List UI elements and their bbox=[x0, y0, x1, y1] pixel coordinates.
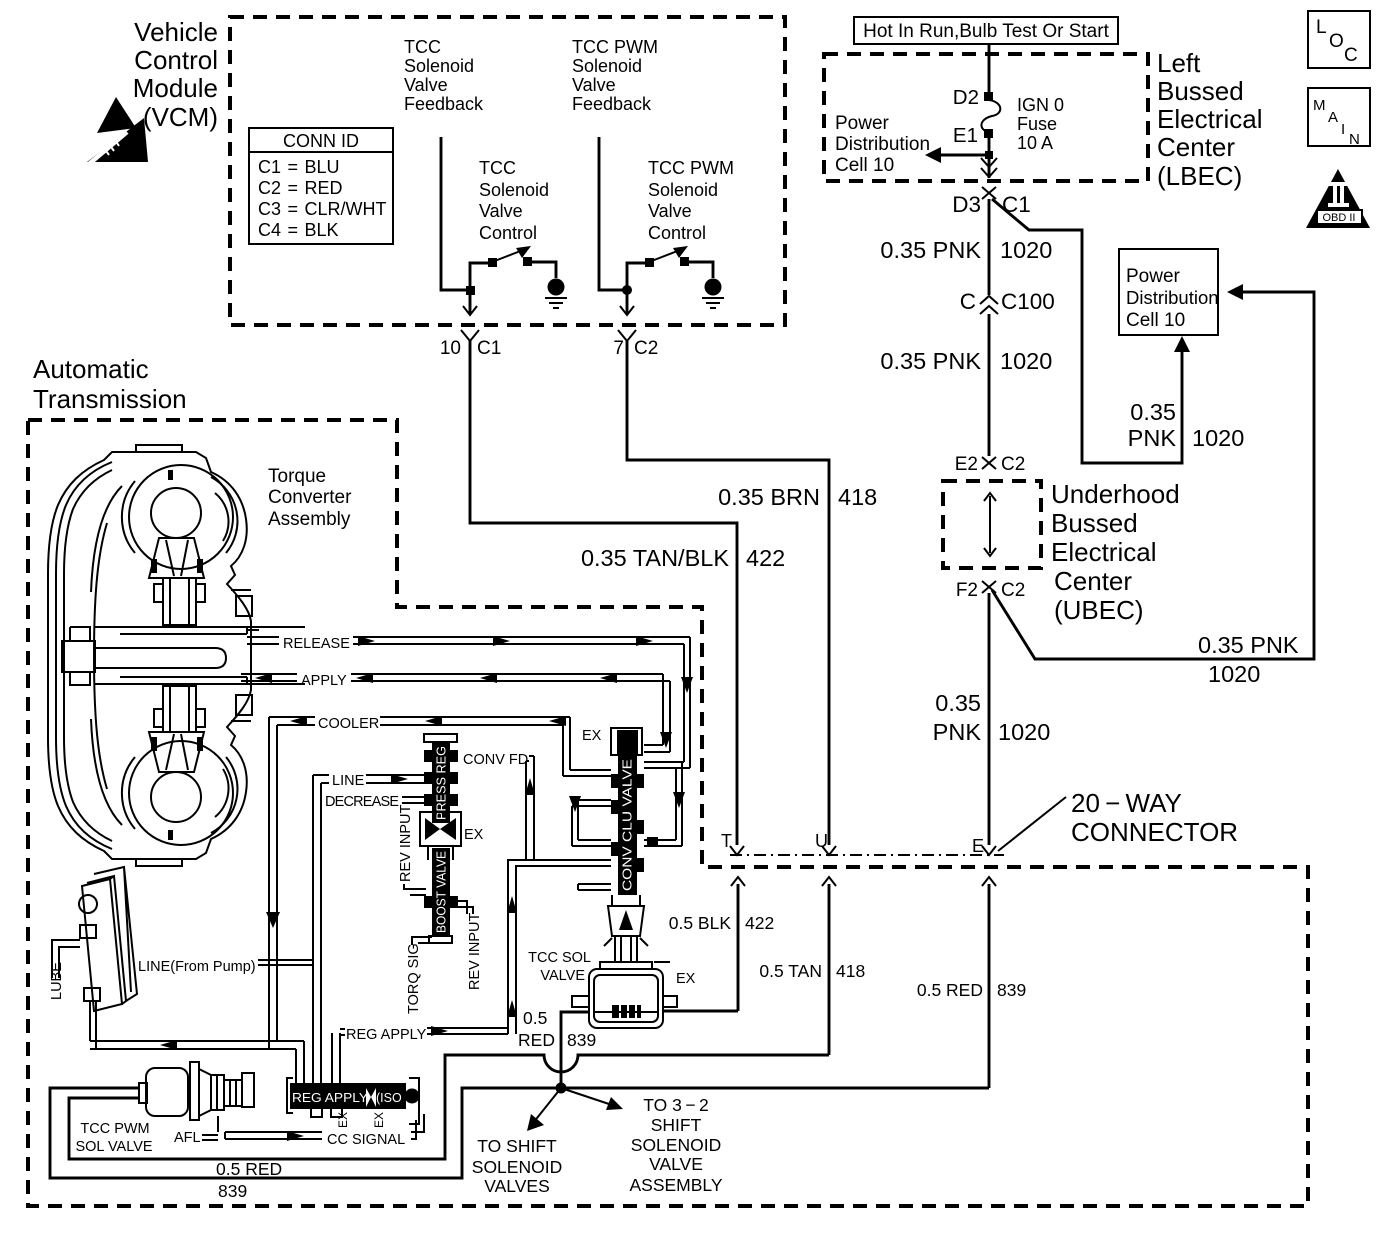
wire RED 839 TCC sol valve drop bbox=[561, 1012, 589, 1088]
svg-text:0.5: 0.5 bbox=[523, 1008, 547, 1028]
svg-text:Assembly: Assembly bbox=[268, 509, 351, 530]
pipe LUBE to cooler bbox=[52, 940, 80, 978]
svg-text:7: 7 bbox=[613, 338, 624, 359]
svg-text:EX: EX bbox=[464, 827, 484, 843]
svg-text:Solenoid: Solenoid bbox=[572, 56, 642, 76]
wire hot feed into fuse bbox=[988, 44, 991, 94]
svg-text:20 − WAY: 20 − WAY bbox=[1071, 788, 1182, 818]
svg-text:1020: 1020 bbox=[1000, 237, 1052, 263]
pipe LINE bbox=[313, 771, 426, 1085]
svg-text:0.5 RED: 0.5 RED bbox=[917, 980, 983, 1000]
svg-text:Electrical: Electrical bbox=[1051, 537, 1156, 567]
pipe conv clu right lower bbox=[569, 677, 693, 846]
wire TAN 418 U to TCC PWM sol valve with hop bbox=[69, 1055, 829, 1159]
svg-text:0.5 TAN: 0.5 TAN bbox=[759, 961, 822, 981]
wire TCC feedback bbox=[441, 137, 466, 290]
wire D3 branch to power distribution cell bbox=[992, 199, 1182, 463]
ESD sensitivity symbol bbox=[87, 97, 148, 164]
svg-text:SOL VALVE: SOL VALVE bbox=[75, 1139, 152, 1155]
wire PNK 1020 C100 to E2 bbox=[988, 314, 991, 456]
solenoid TCC PWM SOL VALVE bbox=[139, 1062, 254, 1120]
svg-text:418: 418 bbox=[836, 961, 865, 981]
svg-text:L: L bbox=[1316, 17, 1327, 38]
svg-text:F2: F2 bbox=[956, 580, 978, 601]
pipe REG APPLY label bbox=[346, 1026, 508, 1043]
svg-text:VALVE: VALVE bbox=[540, 968, 585, 984]
svg-text:M: M bbox=[1313, 97, 1326, 114]
torus outer left arcs bbox=[122, 481, 135, 829]
svg-text:C2: C2 bbox=[1001, 454, 1025, 475]
label TCC PWM Solenoid Valve Control bbox=[648, 158, 734, 243]
svg-text:C4 = BLK: C4 = BLK bbox=[258, 220, 339, 240]
svg-text:1020: 1020 bbox=[1192, 425, 1244, 451]
20-way connector dash-dot line bbox=[730, 854, 1004, 856]
svg-text:C1 = BLU: C1 = BLU bbox=[258, 157, 340, 177]
svg-text:0.35: 0.35 bbox=[935, 690, 981, 716]
wire RED 839 E to junction bbox=[561, 1087, 989, 1090]
label 0.5 RED 839 (bottom) bbox=[216, 1159, 282, 1201]
svg-text:C2: C2 bbox=[634, 338, 658, 359]
svg-text:Feedback: Feedback bbox=[404, 94, 484, 114]
svg-text:Solenoid: Solenoid bbox=[404, 56, 474, 76]
svg-text:E1: E1 bbox=[953, 124, 978, 147]
icon OBD II bbox=[1306, 169, 1370, 228]
svg-text:TO 3 − 2: TO 3 − 2 bbox=[643, 1095, 709, 1115]
module VCM label bbox=[133, 17, 218, 132]
svg-text:0.5 RED: 0.5 RED bbox=[216, 1159, 282, 1179]
svg-text:1020: 1020 bbox=[1000, 348, 1052, 374]
wire RED 839 junction to TCC PWM sol valve bbox=[50, 1088, 561, 1178]
valve CONV CLU VALVE bbox=[582, 728, 648, 962]
svg-text:CONV CLU VALVE: CONV CLU VALVE bbox=[620, 759, 635, 891]
svg-text:(VCM): (VCM) bbox=[143, 102, 218, 132]
svg-text:TCC PWM: TCC PWM bbox=[80, 1121, 149, 1137]
connector C100 bbox=[960, 289, 1055, 314]
svg-text:TCC: TCC bbox=[479, 158, 516, 178]
radiator transmission cooler bbox=[79, 867, 137, 1011]
ground at TCC driver bbox=[545, 279, 567, 309]
switch TCC PWM solenoid valve control driver bbox=[622, 246, 713, 295]
upper torus ring bbox=[129, 465, 237, 569]
svg-text:Power: Power bbox=[835, 113, 890, 134]
wire PNK 1020 LBEC to C100 bbox=[988, 199, 991, 295]
svg-text:SOLENOID: SOLENOID bbox=[472, 1157, 562, 1177]
svg-text:839: 839 bbox=[567, 1030, 596, 1050]
svg-text:Control: Control bbox=[134, 45, 218, 75]
svg-text:APPLY: APPLY bbox=[301, 673, 347, 689]
svg-text:0.35 PNK: 0.35 PNK bbox=[1198, 632, 1299, 658]
svg-text:Left: Left bbox=[1157, 48, 1201, 78]
pipe cooler return bbox=[90, 1001, 304, 1050]
svg-text:839: 839 bbox=[218, 1181, 247, 1201]
pipe REV INPUT upper bbox=[398, 805, 426, 895]
svg-text:I: I bbox=[1341, 121, 1345, 138]
svg-text:E2: E2 bbox=[955, 454, 978, 475]
svg-text:Bussed: Bussed bbox=[1157, 76, 1244, 106]
automatic transmission dashed boundary bbox=[28, 420, 1308, 1206]
svg-text:0.35 BRN: 0.35 BRN bbox=[718, 484, 820, 510]
pipe APPLY bbox=[241, 673, 670, 752]
pipe TORQ SIG bbox=[406, 937, 432, 1014]
torque converter assembly drawing bbox=[48, 445, 305, 866]
svg-text:DECREASE: DECREASE bbox=[325, 794, 399, 810]
svg-text:Hot In Run,Bulb Test Or Start: Hot In Run,Bulb Test Or Start bbox=[863, 21, 1109, 42]
input shaft bbox=[62, 627, 305, 685]
svg-text:0.35 PNK: 0.35 PNK bbox=[880, 348, 981, 374]
svg-text:Fuse: Fuse bbox=[1017, 114, 1057, 134]
arrow to 3-2 shift solenoid bbox=[561, 1088, 623, 1110]
wire arrows into transmission at T U E bbox=[731, 877, 996, 1088]
svg-text:REV INPUT: REV INPUT bbox=[467, 913, 483, 990]
stator spline blocks bbox=[231, 590, 252, 721]
svg-text:Feedback: Feedback bbox=[572, 94, 652, 114]
svg-text:Vehicle: Vehicle bbox=[134, 17, 218, 47]
label 0.5 TAN 418 bbox=[759, 961, 865, 981]
svg-text:SOLENOID: SOLENOID bbox=[631, 1135, 721, 1155]
svg-text:Automatic: Automatic bbox=[33, 354, 149, 384]
label TCC Solenoid Valve Control bbox=[479, 158, 549, 243]
label 0.5 RED 839 (E drop) bbox=[917, 980, 1026, 1000]
svg-text:CONV FD: CONV FD bbox=[463, 752, 528, 768]
label TCC PWM SOL VALVE bbox=[75, 1121, 152, 1155]
valve REG APPLY ISO bbox=[287, 1029, 420, 1124]
label TCC Solenoid Valve Feedback bbox=[404, 37, 484, 114]
svg-text:Cell 10: Cell 10 bbox=[1126, 310, 1185, 331]
svg-text:Distribution: Distribution bbox=[1126, 287, 1219, 308]
svg-text:C2: C2 bbox=[1001, 580, 1025, 601]
svg-text:C100: C100 bbox=[1001, 289, 1055, 314]
svg-text:OBD II: OBD II bbox=[1322, 212, 1355, 224]
svg-text:TCC: TCC bbox=[404, 37, 441, 57]
pipe RELEASE bbox=[247, 636, 690, 768]
LBEC dashed box bbox=[824, 54, 1148, 181]
wire PNK 1020 F2 to 20way E bbox=[988, 593, 991, 845]
svg-text:1020: 1020 bbox=[1208, 661, 1260, 687]
upper turbine hub bbox=[149, 538, 205, 625]
svg-text:0.35 PNK: 0.35 PNK bbox=[880, 237, 981, 263]
arrow into PDC box bottom bbox=[1174, 336, 1190, 352]
svg-text:C: C bbox=[1344, 45, 1358, 66]
lower torus ring bbox=[129, 741, 237, 845]
svg-text:422: 422 bbox=[746, 545, 785, 571]
svg-text:Distribution: Distribution bbox=[835, 134, 930, 155]
svg-text:Valve: Valve bbox=[648, 201, 692, 221]
UBEC dashed box bbox=[943, 481, 1041, 568]
connector pin 7 C2 bbox=[613, 330, 658, 359]
svg-text:839: 839 bbox=[997, 980, 1026, 1000]
label Hot In Run box bbox=[854, 17, 1118, 44]
Power Distribution Cell 10 box bbox=[1119, 249, 1219, 335]
svg-text:C3 = CLR/WHT: C3 = CLR/WHT bbox=[258, 199, 387, 219]
label Automatic Transmission bbox=[33, 354, 187, 414]
wire fuse output with branch arrow bbox=[925, 138, 993, 163]
junction splice 839 bbox=[556, 1083, 567, 1094]
svg-text:REV INPUT: REV INPUT bbox=[398, 805, 414, 882]
switch TCC solenoid valve control driver bbox=[466, 246, 556, 295]
label TO SHIFT SOLENOID VALVES bbox=[472, 1136, 562, 1196]
svg-text:O: O bbox=[1329, 31, 1344, 52]
svg-text:LINE: LINE bbox=[332, 773, 365, 789]
svg-text:Converter: Converter bbox=[268, 487, 352, 508]
wire C1 pin10 to T bbox=[470, 341, 737, 845]
label 0.35 PNK 1020 (second) bbox=[880, 348, 1052, 374]
svg-text:Solenoid: Solenoid bbox=[648, 180, 718, 200]
label TCC PWM Solenoid Valve Feedback bbox=[572, 37, 658, 114]
label 0.35 TAN/BLK 422 bbox=[581, 545, 785, 571]
svg-text:U: U bbox=[815, 831, 828, 851]
svg-text:TORQ SIG: TORQ SIG bbox=[406, 943, 422, 1014]
connector F2 C2 bbox=[956, 580, 1025, 601]
svg-text:Center: Center bbox=[1054, 566, 1132, 596]
wire C2 pin7 to U bbox=[627, 341, 829, 845]
svg-text:CONNECTOR: CONNECTOR bbox=[1071, 817, 1238, 847]
pipe conv clu left loop bbox=[572, 800, 611, 846]
svg-text:422: 422 bbox=[745, 913, 774, 933]
connector D3 C1 bbox=[952, 187, 1031, 217]
svg-text:RELEASE: RELEASE bbox=[283, 636, 350, 652]
svg-text:IGN 0: IGN 0 bbox=[1017, 95, 1064, 115]
svg-text:TCC PWM: TCC PWM bbox=[572, 37, 658, 57]
converter bottom lug bbox=[136, 859, 182, 866]
icon LOC bbox=[1308, 11, 1370, 68]
wire arrow to pin 10 bbox=[463, 290, 477, 315]
label Torque Converter Assembly bbox=[268, 466, 352, 530]
svg-text:AFL: AFL bbox=[174, 1130, 201, 1146]
svg-text:Torque: Torque bbox=[268, 466, 326, 487]
svg-text:EX: EX bbox=[372, 1112, 386, 1128]
svg-text:10 A: 10 A bbox=[1017, 133, 1053, 153]
svg-text:C2 = RED: C2 = RED bbox=[258, 178, 343, 198]
svg-text:PNK: PNK bbox=[1128, 425, 1177, 451]
module VCM dashed box bbox=[230, 17, 785, 325]
svg-text:1020: 1020 bbox=[998, 719, 1050, 745]
svg-text:CC SIGNAL: CC SIGNAL bbox=[327, 1132, 405, 1148]
svg-text:C: C bbox=[960, 289, 976, 314]
label 0.35 PNK 1020 (right branch) bbox=[1198, 632, 1299, 687]
svg-text:EX: EX bbox=[582, 728, 602, 744]
converter shell layer arcs bbox=[91, 486, 122, 825]
label EX EX below iso valve bbox=[336, 1112, 386, 1128]
icon MAIN bbox=[1308, 88, 1370, 148]
20-way connector callout bbox=[998, 788, 1238, 851]
svg-text:VALVE: VALVE bbox=[649, 1154, 703, 1174]
label 0.5 BLK 422 bbox=[669, 913, 774, 933]
connector ID table bbox=[249, 128, 393, 244]
clutch slots bbox=[151, 470, 203, 840]
svg-text:0.35: 0.35 bbox=[1130, 399, 1176, 425]
svg-text:COOLER: COOLER bbox=[318, 716, 379, 732]
converter inner shell line bbox=[56, 462, 112, 849]
valve BOOST VALVE PRESS REG bbox=[420, 734, 461, 943]
20-way connector pins T U E bbox=[721, 831, 996, 856]
svg-text:C1: C1 bbox=[1002, 192, 1031, 217]
svg-text:N: N bbox=[1349, 131, 1360, 148]
svg-text:D2: D2 bbox=[953, 86, 979, 109]
svg-text:(LBEC): (LBEC) bbox=[1157, 161, 1242, 191]
connector E2 C2 bbox=[955, 454, 1026, 475]
arrow into PDC box right bbox=[1227, 284, 1243, 300]
svg-text:Electrical: Electrical bbox=[1157, 104, 1262, 134]
svg-text:Control: Control bbox=[648, 223, 706, 243]
wire BLK 422 T to TCC sol valve bbox=[664, 1010, 738, 1013]
svg-text:EX: EX bbox=[676, 971, 696, 987]
svg-text:(UBEC): (UBEC) bbox=[1054, 595, 1144, 625]
pipe CONV FD bbox=[463, 752, 535, 860]
converter outer shell bbox=[48, 452, 251, 859]
label Power Distribution Cell 10 (LBEC) bbox=[835, 113, 930, 176]
wire arrow to pin 7 bbox=[620, 290, 634, 315]
svg-text:PRESS REG: PRESS REG bbox=[434, 746, 449, 820]
svg-text:TCC PWM: TCC PWM bbox=[648, 158, 734, 178]
label Underhood Bussed Electrical Center (UBEC) bbox=[1051, 479, 1180, 625]
svg-text:RED: RED bbox=[518, 1030, 555, 1050]
svg-text:PNK: PNK bbox=[933, 719, 982, 745]
label Left Bussed Electrical Center bbox=[1157, 48, 1262, 191]
svg-text:C1: C1 bbox=[477, 338, 501, 359]
svg-text:EX: EX bbox=[336, 1112, 350, 1128]
svg-text:D3: D3 bbox=[952, 192, 981, 217]
svg-text:Underhood: Underhood bbox=[1051, 479, 1180, 509]
lower turbine hub bbox=[149, 686, 205, 772]
label TO 3-2 SHIFT SOLENOID VALVE ASSEMBLY bbox=[629, 1095, 722, 1195]
svg-text:Cell 10: Cell 10 bbox=[835, 155, 894, 176]
pipe COOLER bbox=[266, 716, 611, 1049]
pipe conv clu left stub bbox=[578, 884, 611, 890]
converter inner wall second line bbox=[64, 470, 112, 841]
svg-text:0.5 BLK: 0.5 BLK bbox=[669, 913, 732, 933]
svg-text:0.35 TAN/BLK: 0.35 TAN/BLK bbox=[581, 545, 729, 571]
svg-text:CONN ID: CONN ID bbox=[283, 131, 359, 151]
svg-text:Center: Center bbox=[1157, 132, 1235, 162]
label 0.35 PNK 1020 (branch) bbox=[1128, 399, 1245, 451]
label LINE(From Pump) bbox=[138, 959, 313, 975]
svg-text:REG APPLY: REG APPLY bbox=[346, 1027, 427, 1043]
double arrow out of LBEC bbox=[981, 158, 997, 178]
svg-text:TO SHIFT: TO SHIFT bbox=[477, 1136, 557, 1156]
label 0.5 RED 839 at TCC sol valve bbox=[518, 1008, 596, 1050]
svg-text:LINE(From Pump): LINE(From Pump) bbox=[138, 959, 256, 975]
svg-text:REG APPLY: REG APPLY bbox=[292, 1091, 369, 1105]
svg-text:10: 10 bbox=[440, 338, 461, 359]
svg-text:Control: Control bbox=[479, 223, 537, 243]
svg-text:(ISO: (ISO bbox=[376, 1091, 402, 1105]
arrow to shift solenoid valves bbox=[527, 1088, 561, 1131]
svg-text:Bussed: Bussed bbox=[1051, 508, 1138, 538]
label 0.35 PNK 1020 (upper) bbox=[880, 237, 1052, 263]
label 0.35 PNK 1020 (E drop) bbox=[933, 690, 1051, 745]
connector pin 10 C1 bbox=[440, 330, 501, 359]
svg-text:A: A bbox=[1328, 109, 1338, 126]
wire F2 branch to PDC right side bbox=[992, 292, 1314, 659]
fuse IGN 0 10A bbox=[981, 92, 1000, 138]
converter top lug bbox=[136, 445, 182, 452]
svg-text:Solenoid: Solenoid bbox=[479, 180, 549, 200]
svg-text:Transmission: Transmission bbox=[33, 384, 187, 414]
pipe CC SIGNAL bbox=[225, 1114, 424, 1148]
svg-text:Module: Module bbox=[133, 73, 218, 103]
svg-text:Valve: Valve bbox=[572, 75, 616, 95]
svg-text:Power: Power bbox=[1126, 266, 1181, 287]
pipe REV INPUT lower bbox=[457, 901, 483, 990]
svg-text:TCC SOL: TCC SOL bbox=[528, 950, 591, 966]
ground at TCC PWM driver bbox=[702, 279, 724, 309]
svg-text:BOOST VALVE: BOOST VALVE bbox=[434, 851, 449, 933]
solenoid TCC SOL VALVE bbox=[528, 950, 696, 1028]
label IGN 0 Fuse 10 A bbox=[1017, 95, 1064, 153]
pipe AFL bbox=[174, 1116, 218, 1146]
svg-text:SHIFT: SHIFT bbox=[651, 1115, 702, 1135]
wire TCC PWM feedback bbox=[599, 137, 623, 290]
pipe REG APPLY to conv clu valve bbox=[507, 860, 611, 1034]
svg-text:VALVES: VALVES bbox=[484, 1176, 550, 1196]
svg-text:418: 418 bbox=[838, 484, 877, 510]
svg-text:Valve: Valve bbox=[404, 75, 448, 95]
label 0.35 BRN 418 bbox=[718, 484, 877, 510]
pipe DECREASE bbox=[325, 794, 426, 810]
svg-text:Valve: Valve bbox=[479, 201, 523, 221]
svg-text:ASSEMBLY: ASSEMBLY bbox=[629, 1175, 722, 1195]
